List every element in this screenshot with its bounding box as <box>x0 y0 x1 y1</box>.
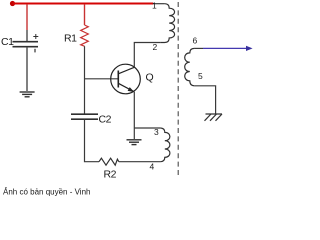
wire (base wire from node to transistor) <box>85 78 119 80</box>
capacitor C2 <box>71 114 98 119</box>
transistor Q collector diagonal <box>118 67 134 74</box>
svg-text:2: 2 <box>153 42 158 52</box>
wire (top red supply rail) <box>13 3 154 5</box>
capacitor C1 <box>13 42 39 47</box>
svg-text:6: 6 <box>193 36 198 46</box>
inductor L1 lower winding pins 3-4 <box>160 128 170 162</box>
transistor Q emitter diagonal <box>118 83 134 92</box>
transistor Q1 circle <box>111 64 141 94</box>
inductor L2 secondary winding pins 5-6 <box>185 48 195 85</box>
ground (earth, under C1) <box>20 92 35 97</box>
svg-text:C1: C1 <box>1 36 14 48</box>
wire (black lead from red rail to coil pin 1) <box>153 3 165 5</box>
C1 plus polarity mark <box>33 34 38 39</box>
wire (red drop to R1) <box>84 4 86 25</box>
output arrowhead <box>246 46 253 51</box>
C1 minus polarity mark <box>34 49 36 53</box>
svg-text:R1: R1 <box>64 33 77 45</box>
svg-text:Ảnh có bản quyền - Vinh: Ảnh có bản quyền - Vinh <box>3 188 90 197</box>
svg-text:R2: R2 <box>104 169 117 181</box>
svg-text:5: 5 <box>198 71 203 81</box>
transistor Q base bar <box>117 71 119 88</box>
transformer core dashed line <box>177 2 179 175</box>
wire (red drop to C1) <box>26 4 28 30</box>
resistor R2 <box>99 158 119 165</box>
transistor Q emitter arrow <box>128 87 135 92</box>
svg-text:3: 3 <box>154 127 159 137</box>
wire (C1 top lead) <box>26 30 28 41</box>
resistor R1 <box>81 25 89 46</box>
ground (chassis, under secondary) <box>205 114 223 121</box>
wire (collector up and over to coil pin 2) <box>134 43 160 68</box>
wire (R1 bottom to base node and down to C2) <box>84 46 86 114</box>
svg-text:Q: Q <box>146 72 154 84</box>
svg-text:4: 4 <box>150 162 155 172</box>
node A (supply junction dot) <box>10 1 15 6</box>
wire (blue output arrow line) <box>203 47 248 49</box>
inductor L1 primary winding pins 1-2 <box>160 4 174 43</box>
wire (pin 3 lead from emitter node to coil) <box>134 127 160 129</box>
wire (C2 bottom down to bottom rail) <box>85 120 100 162</box>
svg-text:C2: C2 <box>99 114 112 126</box>
wire (C1 bottom lead to ground) <box>26 47 28 91</box>
wire (bottom rail from R2 to coil pin 4) <box>119 161 160 163</box>
ground (earth, under emitter) <box>127 140 142 145</box>
wire (emitter down to ground and pin 3 junction) <box>133 92 135 139</box>
wire (output lead pin 6) <box>194 47 203 49</box>
svg-text:1: 1 <box>152 1 157 11</box>
wire (pin 5 lead to chassis ground) <box>194 86 215 114</box>
